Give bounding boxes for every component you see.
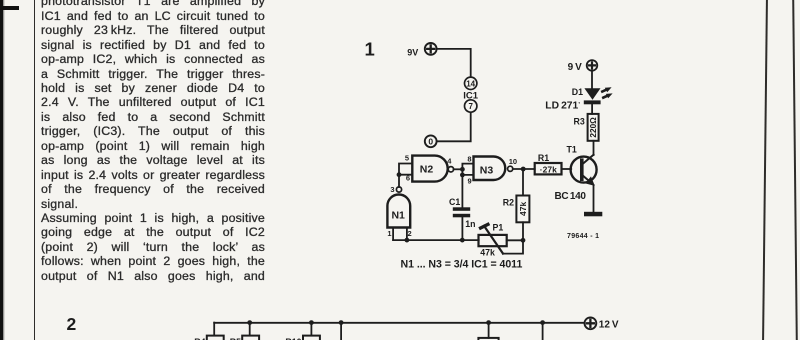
wire D1 to R3: [591, 104, 593, 114]
svg-text:D1: D1: [572, 87, 583, 97]
N1 pins 1,2: [387, 228, 411, 241]
svg-text:47k: 47k: [518, 202, 528, 216]
svg-text:·27k: ·27k: [540, 165, 557, 175]
svg-text:5: 5: [405, 154, 409, 163]
junction R2 tap: [521, 167, 526, 172]
column rule: [34, 0, 36, 340]
wire pin7 to 0V: [438, 113, 471, 141]
wire C1 top lead: [461, 175, 463, 207]
N2 output bubble pin 4: [447, 156, 453, 172]
svg-text:C1: C1: [449, 197, 460, 207]
resistor R13 drop: [461, 320, 499, 340]
figure number 2: [67, 314, 77, 334]
IC1 label: [463, 90, 479, 101]
wire R2 bottom lead: [522, 222, 524, 240]
wire bottom rail: [393, 239, 479, 241]
N3 output bubble pin 10: [508, 157, 517, 171]
svg-text:1n: 1n: [465, 219, 475, 229]
svg-text:R1: R1: [538, 153, 549, 163]
svg-text:9 V: 9 V: [568, 62, 583, 73]
junction C1 on rail: [460, 238, 465, 243]
svg-text:12 V: 12 V: [599, 319, 619, 330]
wire P1 right terminal: [507, 239, 523, 241]
right rule B: [792, 0, 797, 340]
svg-text:N3: N3: [480, 164, 494, 176]
wire N2 out to N3 inputs: [454, 168, 463, 170]
svg-text:47k: 47k: [480, 248, 495, 258]
node 0V battery - terminal: [425, 135, 437, 147]
resistor R5 drop: [230, 320, 259, 340]
resistor R3: [574, 114, 599, 141]
resistor R1: [535, 153, 562, 174]
capacitor C1: [449, 197, 475, 229]
wire 9V to pin14: [438, 49, 471, 77]
svg-text:7: 7: [468, 102, 473, 111]
wire P1 wiper to terminal: [503, 241, 523, 254]
svg-text:220Ω: 220Ω: [588, 117, 598, 138]
wire N3 out to R1: [513, 168, 535, 170]
IC1 pin 14: [465, 77, 477, 89]
wire collector to R3: [593, 141, 595, 155]
board number 79644-1: [567, 233, 599, 240]
svg-text:LD 271’: LD 271’: [545, 100, 580, 111]
wire drop at 341: [339, 320, 344, 340]
svg-text:N1: N1: [391, 209, 405, 221]
svg-text:P1: P1: [493, 222, 504, 232]
resistor R10 drop: [285, 320, 320, 340]
resistor R4 drop: [194, 323, 223, 340]
svg-text:R2: R2: [503, 197, 514, 207]
N2 input pins 5,6 tie: [399, 154, 412, 183]
svg-text:79644 - 1: 79644 - 1: [567, 233, 599, 240]
top-left registration tick: [0, 6, 19, 10]
node 12V supply: [585, 317, 619, 330]
diode D1 LED LD271: [545, 87, 612, 111]
N1 output bubble pin 3: [390, 185, 401, 194]
svg-text:9: 9: [468, 177, 472, 186]
junction C1 tap: [460, 173, 465, 178]
svg-text:N1 ... N3 = 3/4 IC1 = 4011: N1 ... N3 = 3/4 IC1 = 4011: [401, 258, 523, 270]
svg-text:14: 14: [466, 79, 475, 88]
equation label: [401, 258, 523, 270]
svg-text:3: 3: [390, 185, 394, 194]
wire supply to D1: [591, 71, 593, 89]
transistor T1: [555, 144, 597, 202]
wire C1 bottom lead: [461, 217, 463, 240]
svg-text:4: 4: [447, 156, 452, 165]
body text column: [41, 0, 265, 283]
svg-text:R3: R3: [574, 116, 585, 126]
svg-text:2: 2: [67, 314, 77, 334]
nand gate N2: [412, 156, 447, 182]
node 9V battery + terminal: [407, 43, 436, 57]
IC1 pin 7: [465, 100, 477, 112]
junction R2 / P1 node: [521, 238, 526, 243]
svg-text:N2: N2: [420, 163, 434, 175]
nand gate N1 (vertical): [387, 194, 410, 227]
junction N2 inputs / N1 output: [397, 172, 402, 177]
left page-edge black bar: [0, 0, 3, 340]
svg-text:2: 2: [408, 229, 412, 238]
wire junction to N1 bubble: [398, 175, 400, 187]
ground bar: [584, 212, 602, 217]
wire R2 top lead: [522, 169, 524, 196]
svg-text:T1: T1: [567, 144, 577, 154]
svg-text:9V: 9V: [407, 47, 418, 57]
svg-text:BC 140: BC 140: [555, 191, 587, 202]
junction N1 pin2 on rail: [405, 238, 410, 243]
node 9V LED supply: [568, 60, 598, 73]
figure number 1: [365, 39, 375, 60]
wire drop at 542: [540, 320, 545, 340]
svg-text:1: 1: [387, 229, 391, 238]
wire emitter to ground: [593, 185, 595, 212]
potentiometer P1: [479, 222, 507, 257]
svg-text:6: 6: [406, 174, 410, 183]
resistor R2: [503, 196, 530, 223]
svg-text:8: 8: [467, 155, 471, 164]
nand gate N3: [474, 157, 506, 181]
junction feed on tie bar: [460, 167, 465, 172]
svg-text:10: 10: [509, 157, 517, 166]
wire R1 to base: [562, 168, 572, 170]
N3 input pins 8,9 tie: [462, 155, 473, 186]
right rule A: [762, 0, 767, 340]
wire 12V rail: [214, 322, 584, 324]
svg-text:0: 0: [428, 137, 433, 147]
svg-text:1: 1: [365, 39, 375, 60]
